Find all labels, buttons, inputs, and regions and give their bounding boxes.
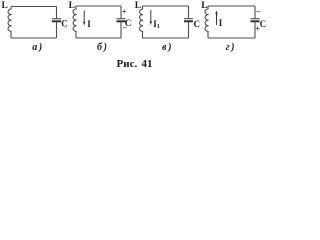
capacitor C (circuit a) bottom plate bbox=[52, 20, 61, 22]
wire: circuit b bottom bbox=[76, 37, 121, 39]
svg-text:C: C bbox=[194, 19, 201, 29]
inductor L (circuit a) coil bbox=[8, 9, 12, 31]
wire: circuit g left lower bbox=[207, 31, 209, 38]
wire: circuit v left lower bbox=[142, 31, 144, 38]
svg-text:б): б) bbox=[97, 42, 109, 53]
svg-text:L: L bbox=[69, 1, 75, 11]
wire: circuit v bottom bbox=[143, 37, 189, 39]
svg-text:+: + bbox=[255, 25, 260, 34]
wire: circuit a right upper bbox=[56, 7, 58, 19]
svg-text:I: I bbox=[87, 19, 91, 29]
wire: circuit g right lower bbox=[254, 22, 256, 38]
capacitor C (circuit a) top plate bbox=[52, 18, 61, 20]
wire: circuit g bottom bbox=[208, 37, 255, 39]
wire: circuit b top bbox=[76, 5, 121, 7]
capacitor C (circuit b) bottom plate bbox=[117, 20, 126, 22]
capacitor C (circuit v) top plate bbox=[184, 18, 193, 20]
current arrow I1 (circuit v, downward) bbox=[150, 10, 152, 23]
capacitor C (circuit g) bottom plate bbox=[251, 20, 260, 22]
capacitor C (circuit g) top plate bbox=[251, 18, 260, 20]
wire: circuit v top bbox=[143, 5, 189, 7]
wire: circuit v left upper bbox=[142, 6, 144, 9]
svg-text:г): г) bbox=[226, 42, 236, 53]
svg-text:L: L bbox=[2, 1, 8, 11]
svg-text:C: C bbox=[61, 19, 68, 29]
wire: circuit a left lower bbox=[10, 31, 12, 38]
wire: circuit b right upper bbox=[120, 6, 122, 18]
current arrow I (circuit b, downward) bbox=[83, 11, 85, 24]
inductor L (circuit v) coil bbox=[139, 9, 143, 31]
wire: circuit a right lower bbox=[56, 22, 58, 38]
wire: circuit a top bbox=[11, 6, 57, 8]
wire: circuit v right upper bbox=[188, 6, 190, 18]
svg-text:–: – bbox=[255, 7, 261, 16]
wire: circuit g right upper bbox=[254, 6, 256, 18]
svg-text:Рис. 41: Рис. 41 bbox=[117, 58, 153, 70]
svg-text:I: I bbox=[219, 18, 223, 28]
inductor L (circuit b) coil bbox=[73, 9, 77, 31]
current arrow I (circuit g, upward) bbox=[216, 13, 218, 25]
svg-text:L: L bbox=[201, 1, 207, 11]
wire: circuit a bottom bbox=[11, 37, 57, 39]
wire: circuit b right lower bbox=[120, 22, 122, 38]
svg-text:1: 1 bbox=[157, 24, 160, 30]
svg-text:а): а) bbox=[32, 42, 44, 53]
wire: circuit v right lower bbox=[188, 22, 190, 38]
wire: circuit a left upper bbox=[10, 7, 12, 10]
inductor L (circuit g) coil bbox=[205, 9, 209, 31]
svg-text:L: L bbox=[135, 1, 141, 11]
svg-text:в): в) bbox=[162, 42, 173, 53]
wire: circuit g top bbox=[208, 5, 255, 7]
wire: circuit b left lower bbox=[75, 31, 77, 38]
wire: circuit g left upper bbox=[207, 6, 209, 9]
capacitor C (circuit b) top plate bbox=[117, 18, 126, 20]
wire: circuit b left upper bbox=[75, 6, 77, 9]
svg-text:+: + bbox=[122, 7, 127, 16]
svg-text:C: C bbox=[260, 19, 267, 29]
capacitor C (circuit v) bottom plate bbox=[184, 20, 193, 22]
